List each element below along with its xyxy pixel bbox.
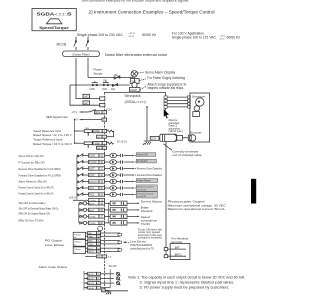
terminal ALO2 xyxy=(84,277,101,281)
wire motor ground xyxy=(167,106,188,108)
svg-text:1Ry: 1Ry xyxy=(114,73,119,77)
svg-text:SG-A: SG-A xyxy=(88,287,94,290)
svg-text:2) Instrument Connection Examp: 2) Instrument Connection Examples – Spee… xyxy=(89,10,215,15)
note photocoupler output xyxy=(168,200,227,212)
terminal T-REF xyxy=(93,142,102,146)
svg-text:Servo ON for 1Ry ON: Servo ON for 1Ry ON xyxy=(19,154,44,158)
opto input N-CL xyxy=(104,186,122,190)
photocoupler BK xyxy=(104,208,127,213)
terminal V xyxy=(164,99,167,102)
svg-text:2: Signal input line ⎅ repres: 2: Signal input line ⎅ represents twiste… xyxy=(139,280,234,284)
svg-text:+10 %: +10 % xyxy=(128,33,134,35)
arrow brake interlock xyxy=(127,209,140,211)
contact P-CON xyxy=(77,160,88,164)
svg-text:Encoder: Encoder xyxy=(190,130,201,134)
note line driver xyxy=(130,240,154,251)
terminal PAO 33 xyxy=(85,232,101,236)
left labels output signals xyxy=(19,201,60,222)
terminal P-OT 16 xyxy=(88,173,104,177)
terminal SG-AL xyxy=(84,286,101,290)
arrow speed coincidence xyxy=(127,216,140,218)
wire +24V in xyxy=(73,200,88,201)
alarm sg rail xyxy=(109,270,111,288)
label speed coincidence xyxy=(141,215,158,226)
opto input N-OT xyxy=(104,166,122,170)
pin T-REF xyxy=(102,142,106,146)
note must be grounded xyxy=(169,119,184,133)
wire control row 1 xyxy=(88,77,131,79)
ground symbol earth xyxy=(143,141,151,145)
svg-text:Forward Current: Forward Current xyxy=(137,192,153,195)
opto input P-CL xyxy=(104,192,122,196)
potentiometer speed 2k xyxy=(75,128,93,136)
terminal S-ON 14 xyxy=(88,154,104,158)
svg-text:Servopack: Servopack xyxy=(125,94,141,98)
svg-text:SG: SG xyxy=(97,257,100,259)
arrow servo alarm xyxy=(127,203,140,205)
wire L1 top xyxy=(75,37,77,41)
svg-text:(Noise Filter): (Noise Filter) xyxy=(72,52,89,56)
svg-text:end of shielded cable.: end of shielded cable. xyxy=(172,153,202,157)
svg-text:Phase: Phase xyxy=(74,242,81,244)
svg-text:SGDA-□□□S: SGDA-□□□S xyxy=(37,12,72,17)
svg-text:T-REF: T-REF xyxy=(93,143,100,145)
svg-text:Forward Current Control On for: Forward Current Control On for 5Ry ON xyxy=(19,192,54,195)
svg-text:SEN Signal Input: SEN Signal Input xyxy=(46,115,68,119)
svg-text:P Control for 2Ry ON: P Control for 2Ry ON xyxy=(19,161,45,165)
logo box SGDA Speed/Torque xyxy=(32,9,76,31)
label alarm reset xyxy=(136,179,158,183)
open collector ALO2 xyxy=(101,277,121,281)
terminal P-CL 19 xyxy=(88,193,104,197)
junction dot L1 row2 xyxy=(75,84,77,86)
svg-text:6Ry ON for TGON: 6Ry ON for TGON xyxy=(19,218,44,222)
terminal TGON+ 27 xyxy=(88,215,104,219)
contact P-OT xyxy=(77,173,88,177)
breaker MCCB pole 1 xyxy=(74,41,77,50)
wire 0V xyxy=(80,119,102,121)
svg-text:P-OT: P-OT xyxy=(89,175,95,177)
leader to power supply switching xyxy=(140,79,147,81)
servopack bottom edge xyxy=(104,290,128,292)
svg-text:50/60 Hz: 50/60 Hz xyxy=(142,33,156,37)
left labels input signals xyxy=(19,154,62,196)
noise filter box xyxy=(63,51,100,57)
wire T feed xyxy=(70,85,100,105)
leader to surge suppressor note xyxy=(140,87,146,90)
svg-text:ON: ON xyxy=(103,79,107,83)
svg-text:1Ry OFF to External Motor Brak: 1Ry OFF to External Motor Brake Off On xyxy=(19,207,60,210)
svg-text:Torque Reference Input: Torque Reference Input xyxy=(33,138,62,142)
svg-text:Rated Speed / ±2 V to ±10 V: Rated Speed / ±2 V to ±10 V xyxy=(33,133,72,137)
svg-text:For Power Supply Switching: For Power Supply Switching xyxy=(147,76,185,80)
contact 1MC pole 2 xyxy=(83,101,90,105)
svg-text:magnetic contactor and relays.: magnetic contactor and relays. xyxy=(147,86,183,90)
arrow alarm reset xyxy=(124,181,136,183)
arrow p control xyxy=(124,161,136,163)
motor gear circle xyxy=(194,106,199,111)
box phase C xyxy=(73,247,85,254)
leader correctly terminate xyxy=(164,144,173,150)
svg-text:Reverse Current: Reverse Current xyxy=(137,186,153,189)
svg-text:SG: SG xyxy=(97,148,100,150)
svg-text:and connection examples for th: and connection examples for the encoder … xyxy=(82,0,189,2)
alarm code rail xyxy=(83,271,85,290)
svg-text:Forward Drive Disabled for P-L: Forward Drive Disabled for P-LS OPEN xyxy=(19,174,62,178)
arrow tgon xyxy=(127,222,140,224)
wire control row 2 xyxy=(70,84,130,86)
motor circle xyxy=(196,98,204,106)
motor base block xyxy=(193,112,200,117)
svg-text:Phase: Phase xyxy=(74,249,81,251)
svg-text:+10 %: +10 % xyxy=(219,36,225,38)
twisted pair loop B xyxy=(101,241,130,244)
svg-text:Alarm Code Output: Alarm Code Output xyxy=(39,265,68,269)
svg-text:Alarm Reset: Alarm Reset xyxy=(137,180,150,183)
input rail +24V xyxy=(76,156,78,201)
contact N-OT xyxy=(77,167,88,171)
svg-text:FG: FG xyxy=(102,291,105,293)
twisted pair loop C xyxy=(101,248,122,251)
svg-text:ALO2: ALO2 xyxy=(88,278,94,281)
contact 1Ry row1 xyxy=(114,76,120,80)
opto input P-CON xyxy=(104,160,122,164)
svg-text:OFF: OFF xyxy=(90,87,96,91)
contact S-ON xyxy=(77,154,88,158)
svg-text:N-OT: N-OT xyxy=(89,169,95,171)
svg-text:Reverse Drive Disabled for N-L: Reverse Drive Disabled for N-LS OPEN xyxy=(19,167,61,171)
encoder cable connector xyxy=(177,135,183,140)
svg-text:3: I/O power supply must be p: 3: I/O power supply must be prepared by … xyxy=(139,285,229,289)
wire to BAT0 xyxy=(168,255,186,257)
svg-text:1MC: 1MC xyxy=(83,96,88,99)
terminal FG xyxy=(102,289,106,293)
svg-text:Limit ON: Limit ON xyxy=(137,189,146,192)
svg-text:2CN: 2CN xyxy=(151,137,156,141)
label speed reference input xyxy=(33,129,72,146)
svg-text:Reverse Drive Disabled: Reverse Drive Disabled xyxy=(137,167,163,170)
svg-text:-15 %: -15 % xyxy=(128,36,134,38)
wire U xyxy=(167,96,188,98)
svg-text:+5 V: +5 V xyxy=(72,110,78,114)
terminal /PBO 36 xyxy=(85,242,101,246)
output coil rail xyxy=(78,203,80,223)
coil 1Ry out xyxy=(79,208,89,211)
terminal U xyxy=(164,96,167,99)
svg-text:ALM+: ALM+ xyxy=(89,202,95,205)
encoder cable plug body xyxy=(160,134,177,141)
arrow servo on xyxy=(124,155,136,157)
terminal PBO 35 xyxy=(85,239,101,243)
svg-text:0 V: 0 V xyxy=(108,257,112,259)
potentiometer torque 2k xyxy=(75,142,93,148)
terminal PCO 19 xyxy=(85,247,101,251)
pushbutton ON xyxy=(103,81,109,86)
svg-text:-15 %: -15 % xyxy=(219,38,224,40)
svg-text:*PCO: *PCO xyxy=(88,252,94,254)
coil 1MC xyxy=(130,79,139,84)
coil 5Ry xyxy=(79,202,89,205)
opto input ALM-RST xyxy=(104,179,122,183)
svg-text:V-REF: V-REF xyxy=(93,131,100,133)
contact P-CL xyxy=(77,193,88,197)
terminal N-CL 20 xyxy=(88,186,104,190)
box phase B xyxy=(73,240,85,247)
arrow reverse current xyxy=(124,187,136,189)
terminal ALM-RST 18 xyxy=(88,180,104,184)
contact ALM-RST xyxy=(77,180,88,184)
arrow forward current xyxy=(124,194,136,196)
contact 1MC pole 1 xyxy=(83,94,90,98)
svg-text:1MC: 1MC xyxy=(102,88,107,91)
svg-text:SG: SG xyxy=(97,137,100,139)
svg-text:Single-phase 100 to 115 VAC: Single-phase 100 to 115 VAC xyxy=(172,35,217,39)
svg-text:Interlock: Interlock xyxy=(141,209,153,213)
ground symbol FG xyxy=(105,290,111,294)
terminal TGON- 28 xyxy=(88,221,104,225)
battery pin BAT xyxy=(164,248,168,251)
output bus xyxy=(108,203,109,223)
svg-text:Line Driver: Line Driver xyxy=(45,243,65,247)
open collector ALO3 xyxy=(101,282,121,286)
terminal SG pg xyxy=(85,255,106,259)
terminal +24VIN 13 xyxy=(88,199,104,203)
svg-text:N-CL: N-CL xyxy=(89,188,95,190)
shield ring xyxy=(98,226,103,231)
resistor internal T-REF xyxy=(107,142,114,144)
breaker MCCB pole 2 xyxy=(86,41,89,50)
box phase A xyxy=(73,232,85,239)
svg-text:SEN: SEN xyxy=(95,112,100,114)
svg-text:ALO3: ALO3 xyxy=(88,282,94,285)
svg-text:ALM-RST: ALM-RST xyxy=(89,181,99,184)
svg-text:Note 1: The capacity of each: Note 1: The capacity of each output circ… xyxy=(128,275,245,279)
terminal N-OT 17 xyxy=(88,167,104,171)
svg-text:Servo Alarm: Servo Alarm xyxy=(141,199,163,203)
terminal ALM+ 34 xyxy=(88,202,104,206)
svg-text:TGON: TGON xyxy=(141,222,150,226)
wire L2 top xyxy=(87,37,89,41)
terminal T xyxy=(100,103,105,106)
label brake interlock xyxy=(141,206,153,214)
suppressor 1SUP xyxy=(130,87,140,91)
terminal ALO1 xyxy=(84,272,101,276)
motor pin W xyxy=(188,103,191,106)
connector 2CN xyxy=(150,136,159,140)
open collector ALO1 xyxy=(101,272,121,276)
mouse cursor xyxy=(164,109,170,119)
svg-text:1Ry: 1Ry xyxy=(111,88,116,91)
label reverse current limit xyxy=(136,185,157,192)
encoder cable stub xyxy=(182,137,188,139)
svg-text:MCCB: MCCB xyxy=(57,43,68,47)
label forward current limit xyxy=(136,192,157,199)
pin SG upper xyxy=(97,135,107,139)
svg-text:P-CON: P-CON xyxy=(89,162,97,164)
svg-text:Maximum operational current: 5: Maximum operational current: 50 mA xyxy=(168,207,226,211)
svg-text:1MC: 1MC xyxy=(83,102,88,105)
svg-text:SG 0V: SG 0V xyxy=(109,264,117,268)
svg-text:Supply: Supply xyxy=(94,71,104,75)
wire to BAT xyxy=(168,248,186,250)
svg-text:Alarm Reset for 3Ry ON: Alarm Reset for 3Ry ON xyxy=(19,180,47,184)
svg-text:Limit ON: Limit ON xyxy=(137,195,146,198)
coil 1Ry on row2 xyxy=(132,82,137,87)
opto input S-ON xyxy=(104,153,122,157)
svg-text:S-ON: S-ON xyxy=(89,156,95,158)
svg-text:5Ry OFF for Servo Alarm: 5Ry OFF for Servo Alarm xyxy=(19,201,46,205)
wire V xyxy=(167,100,188,102)
svg-text:TGON+: TGON+ xyxy=(89,217,97,219)
ground wire drop xyxy=(146,106,148,141)
terminal /PAO 34 xyxy=(85,235,101,239)
terminal ALO3 xyxy=(84,282,101,286)
svg-text:6Ry ON for Speed Match ON: 6Ry ON for Speed Match ON xyxy=(19,211,51,215)
svg-text:*PBO: *PBO xyxy=(88,244,94,246)
opto input P-OT xyxy=(104,173,122,177)
svg-text:Rated Torque / ±2 V to ±10 V: Rated Torque / ±2 V to ±10 V xyxy=(33,142,72,146)
terminal /PCO 20 xyxy=(85,250,101,254)
svg-text:ALO1: ALO1 xyxy=(88,273,94,276)
svg-text:manufactured by TI): manufactured by TI) xyxy=(130,247,154,250)
wire L2 to control row 1 xyxy=(87,58,89,78)
svg-text:Servo Alarm Display: Servo Alarm Display xyxy=(145,70,176,74)
motor pin FG xyxy=(188,106,191,109)
pin SEN xyxy=(102,111,107,115)
servopack 1CN dashed edge xyxy=(103,92,105,290)
svg-text:Speed/Torque: Speed/Torque xyxy=(39,26,69,30)
pin 0V xyxy=(102,118,107,122)
pushbutton OFF xyxy=(92,81,98,86)
svg-text:BATO: BATO xyxy=(175,253,182,257)
svg-text:Noise filter eliminates extern: Noise filter eliminates external noise xyxy=(105,53,167,57)
coil TGON xyxy=(79,221,89,224)
photocoupler TGON b xyxy=(104,221,127,226)
svg-text:1SUP: 1SUP xyxy=(130,88,137,92)
svg-text:TGON-: TGON- xyxy=(89,223,96,225)
svg-text:P-CL: P-CL xyxy=(89,195,95,197)
label PG output line driver xyxy=(45,239,65,247)
arrow reverse drive xyxy=(124,168,136,170)
twisted pair loop A xyxy=(101,233,122,236)
svg-text:(100 Ω max.): (100 Ω max.) xyxy=(169,130,184,133)
coil 6Ry xyxy=(79,215,89,218)
svg-text:P Control: P Control xyxy=(137,160,147,163)
svg-text:+24 V: +24 V xyxy=(69,196,77,200)
external 0V rail xyxy=(74,119,75,144)
box absolute encoder battery xyxy=(170,243,190,259)
photocoupler ALM xyxy=(104,201,127,206)
encoder connector shape xyxy=(188,135,196,141)
wire sg-al xyxy=(101,287,111,289)
contact N-CL xyxy=(77,186,88,190)
motor pin U xyxy=(188,96,191,99)
terminal V-REF xyxy=(93,129,102,133)
resistor internal V-REF xyxy=(107,130,114,132)
terminal SEN xyxy=(94,111,102,115)
svg-text:SG (0 V): SG (0 V) xyxy=(117,141,127,144)
wire L1 to R xyxy=(76,58,100,99)
terminal P-CON 15 xyxy=(88,160,104,164)
stub lamp to coil xyxy=(134,77,136,82)
svg-text:*PAO: *PAO xyxy=(88,235,93,238)
terminal W xyxy=(164,103,167,106)
svg-text:Reverse Current Control On for: Reverse Current Control On for 4Ry ON xyxy=(19,186,54,189)
servomotor box xyxy=(190,93,210,142)
lamp 1PL servo alarm display xyxy=(131,71,137,78)
black page marker xyxy=(251,179,256,204)
svg-text:(SGDA-□□□□): (SGDA-□□□□) xyxy=(125,100,146,104)
svg-text:Phase: Phase xyxy=(74,234,81,236)
terminal R xyxy=(100,97,105,100)
wire SEN xyxy=(80,110,96,113)
svg-text:Single-phase 200 to 230 VAC: Single-phase 200 to 230 VAC xyxy=(77,33,123,37)
motor pin V xyxy=(188,99,191,102)
servopack right edge xyxy=(165,92,167,110)
label p control xyxy=(136,159,156,163)
contact 1Ry row2 xyxy=(112,83,118,87)
terminal FG xyxy=(164,106,167,109)
pin V-REF xyxy=(102,129,106,133)
svg-text:BAT: BAT xyxy=(175,246,180,250)
svg-text:Forward Drive Disabled: Forward Drive Disabled xyxy=(137,174,163,177)
svg-text:2kΩ: 2kΩ xyxy=(85,128,89,130)
svg-text:50/60 Hz: 50/60 Hz xyxy=(227,35,241,39)
wire W xyxy=(167,103,188,105)
leader to servo alarm display xyxy=(138,71,144,74)
internal SG wire xyxy=(107,131,114,137)
terminal ALM- 35 xyxy=(88,208,104,212)
battery pin BAT0 xyxy=(164,255,168,258)
svg-text:ALM-: ALM- xyxy=(89,209,94,212)
note turns on when xyxy=(138,227,163,239)
battery wire xyxy=(165,141,167,256)
svg-text:Servo ON: Servo ON xyxy=(137,154,148,157)
servopack top edge xyxy=(104,91,165,93)
label servo on xyxy=(136,153,156,157)
photocoupler TGON a xyxy=(104,214,127,219)
arrow forward drive xyxy=(124,174,136,176)
pin SG lower xyxy=(97,146,107,150)
